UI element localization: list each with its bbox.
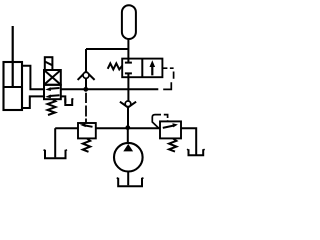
check valve CV1 ball <box>83 72 89 78</box>
check valve CV2 seat wings <box>120 102 136 108</box>
relief valve V3 spring <box>83 138 90 151</box>
valve V2 blocked port bottom T <box>125 73 132 77</box>
wire left tank drop <box>54 128 56 157</box>
valve V2 flow arrow up <box>151 65 153 76</box>
relief valve V3 box <box>78 123 96 138</box>
wire pump feed <box>127 130 129 144</box>
check valve CV2 ball <box>125 101 131 107</box>
tank T2 <box>65 98 72 105</box>
sequence valve V4 arrow <box>163 126 174 128</box>
wire V2 bottom to CV2 <box>127 77 129 101</box>
sequence valve V4 pilot dashed <box>152 115 167 129</box>
relief valve V3 pilot dashed <box>85 93 87 123</box>
wire port A (cylinder top to valve) <box>22 66 44 90</box>
wire top link <box>86 48 128 50</box>
valve V1 flow arrow 2 <box>50 94 60 97</box>
valve V2 unloading valve outline <box>122 59 162 78</box>
valve V2 pilot dashed line <box>162 68 173 89</box>
tank T3 <box>118 178 142 187</box>
valve V1 solenoid diagonal <box>45 62 52 66</box>
wire V4 to right tank <box>181 128 196 154</box>
node J1 junction <box>83 87 88 92</box>
valve V1 X <box>44 70 61 85</box>
pump P1 <box>114 143 143 172</box>
cylinder C1 rod <box>12 26 14 87</box>
valve V2 divider <box>141 59 143 78</box>
valve V1 crossed position box <box>44 70 61 85</box>
wire pump suction <box>127 171 129 186</box>
relief valve V3 arrow <box>85 125 93 126</box>
valve V1 flow arrow 1 <box>50 87 60 90</box>
sequence valve V4 spring <box>169 138 176 151</box>
sequence valve V4 box <box>160 121 181 138</box>
tank T1 <box>45 150 66 159</box>
pump P1 flow triangle <box>123 144 133 152</box>
valve V2 blocked port top T <box>125 59 132 63</box>
tank T4 <box>189 149 204 155</box>
wire port B (cylinder bottom to valve) <box>22 96 44 108</box>
wire bottom bus left <box>96 127 128 129</box>
wire relief valve to left corner <box>55 127 78 129</box>
cylinder C1 body <box>4 62 23 110</box>
cylinder C1 piston <box>4 86 22 88</box>
check valve CV1 seat wings <box>78 72 95 80</box>
wire CV1 to top link <box>85 49 87 72</box>
node J2 junction <box>125 125 130 130</box>
valve V1 solenoid box <box>45 57 53 70</box>
wire drain to tank T2 <box>61 96 66 102</box>
check valve CV1 stem <box>85 72 87 90</box>
accumulator A1 <box>122 5 136 39</box>
wire main pressure line <box>61 88 159 90</box>
wire accumulator drop <box>127 39 129 59</box>
valve V1 spring <box>48 99 56 115</box>
wire bottom bus right <box>130 127 160 129</box>
valve V2 spring <box>108 63 123 69</box>
wire CV2 to junction J2 <box>127 107 129 128</box>
valve V1 arrow position box <box>44 85 61 99</box>
